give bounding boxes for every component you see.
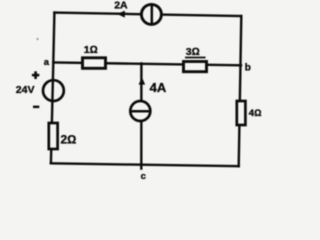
svg-text:2Ω: 2Ω <box>61 133 77 147</box>
svg-text:3Ω: 3Ω <box>186 46 200 58</box>
arrow of 2A source on top wire (pointing left) <box>117 11 125 18</box>
plus sign of 24V <box>32 71 39 79</box>
voltage source 24V (circle, wire passes through) <box>43 80 64 101</box>
wire left vertical (top corner through node a down to bottom corner) <box>51 13 55 164</box>
svg-text:2A: 2A <box>114 0 128 12</box>
resistor 1ohm (horizontal box) <box>83 58 106 69</box>
svg-text:c: c <box>141 171 146 182</box>
svg-text:24V: 24V <box>16 84 35 96</box>
svg-text:1Ω: 1Ω <box>84 44 98 56</box>
svg-text:a: a <box>44 57 50 68</box>
wire right vertical (b down to bottom corner) <box>239 16 242 166</box>
wire top (a-corner to b-corner) <box>54 13 241 16</box>
svg-text:4Ω: 4Ω <box>249 108 262 119</box>
svg-text:4A: 4A <box>150 80 167 95</box>
arrow of 4A source (pointing up, on middle vertical wire) <box>139 77 146 84</box>
current source 2A (circle with vertical bar) <box>141 4 161 24</box>
resistor 2ohm (vertical box) <box>49 123 58 149</box>
minus sign of 24V <box>33 106 39 109</box>
resistor 4ohm (vertical box) <box>237 101 246 125</box>
wire middle vertical (junction to bottom, through 4A source) <box>140 63 142 168</box>
wire bottom (c rail) <box>51 163 239 166</box>
resistor 3ohm (horizontal box) <box>184 62 207 72</box>
svg-text:b: b <box>245 62 251 73</box>
current source 4A (circle with horizontal bar) <box>130 101 150 121</box>
wire middle horizontal a-b <box>53 63 241 66</box>
speck (scan artifact) <box>36 38 38 40</box>
